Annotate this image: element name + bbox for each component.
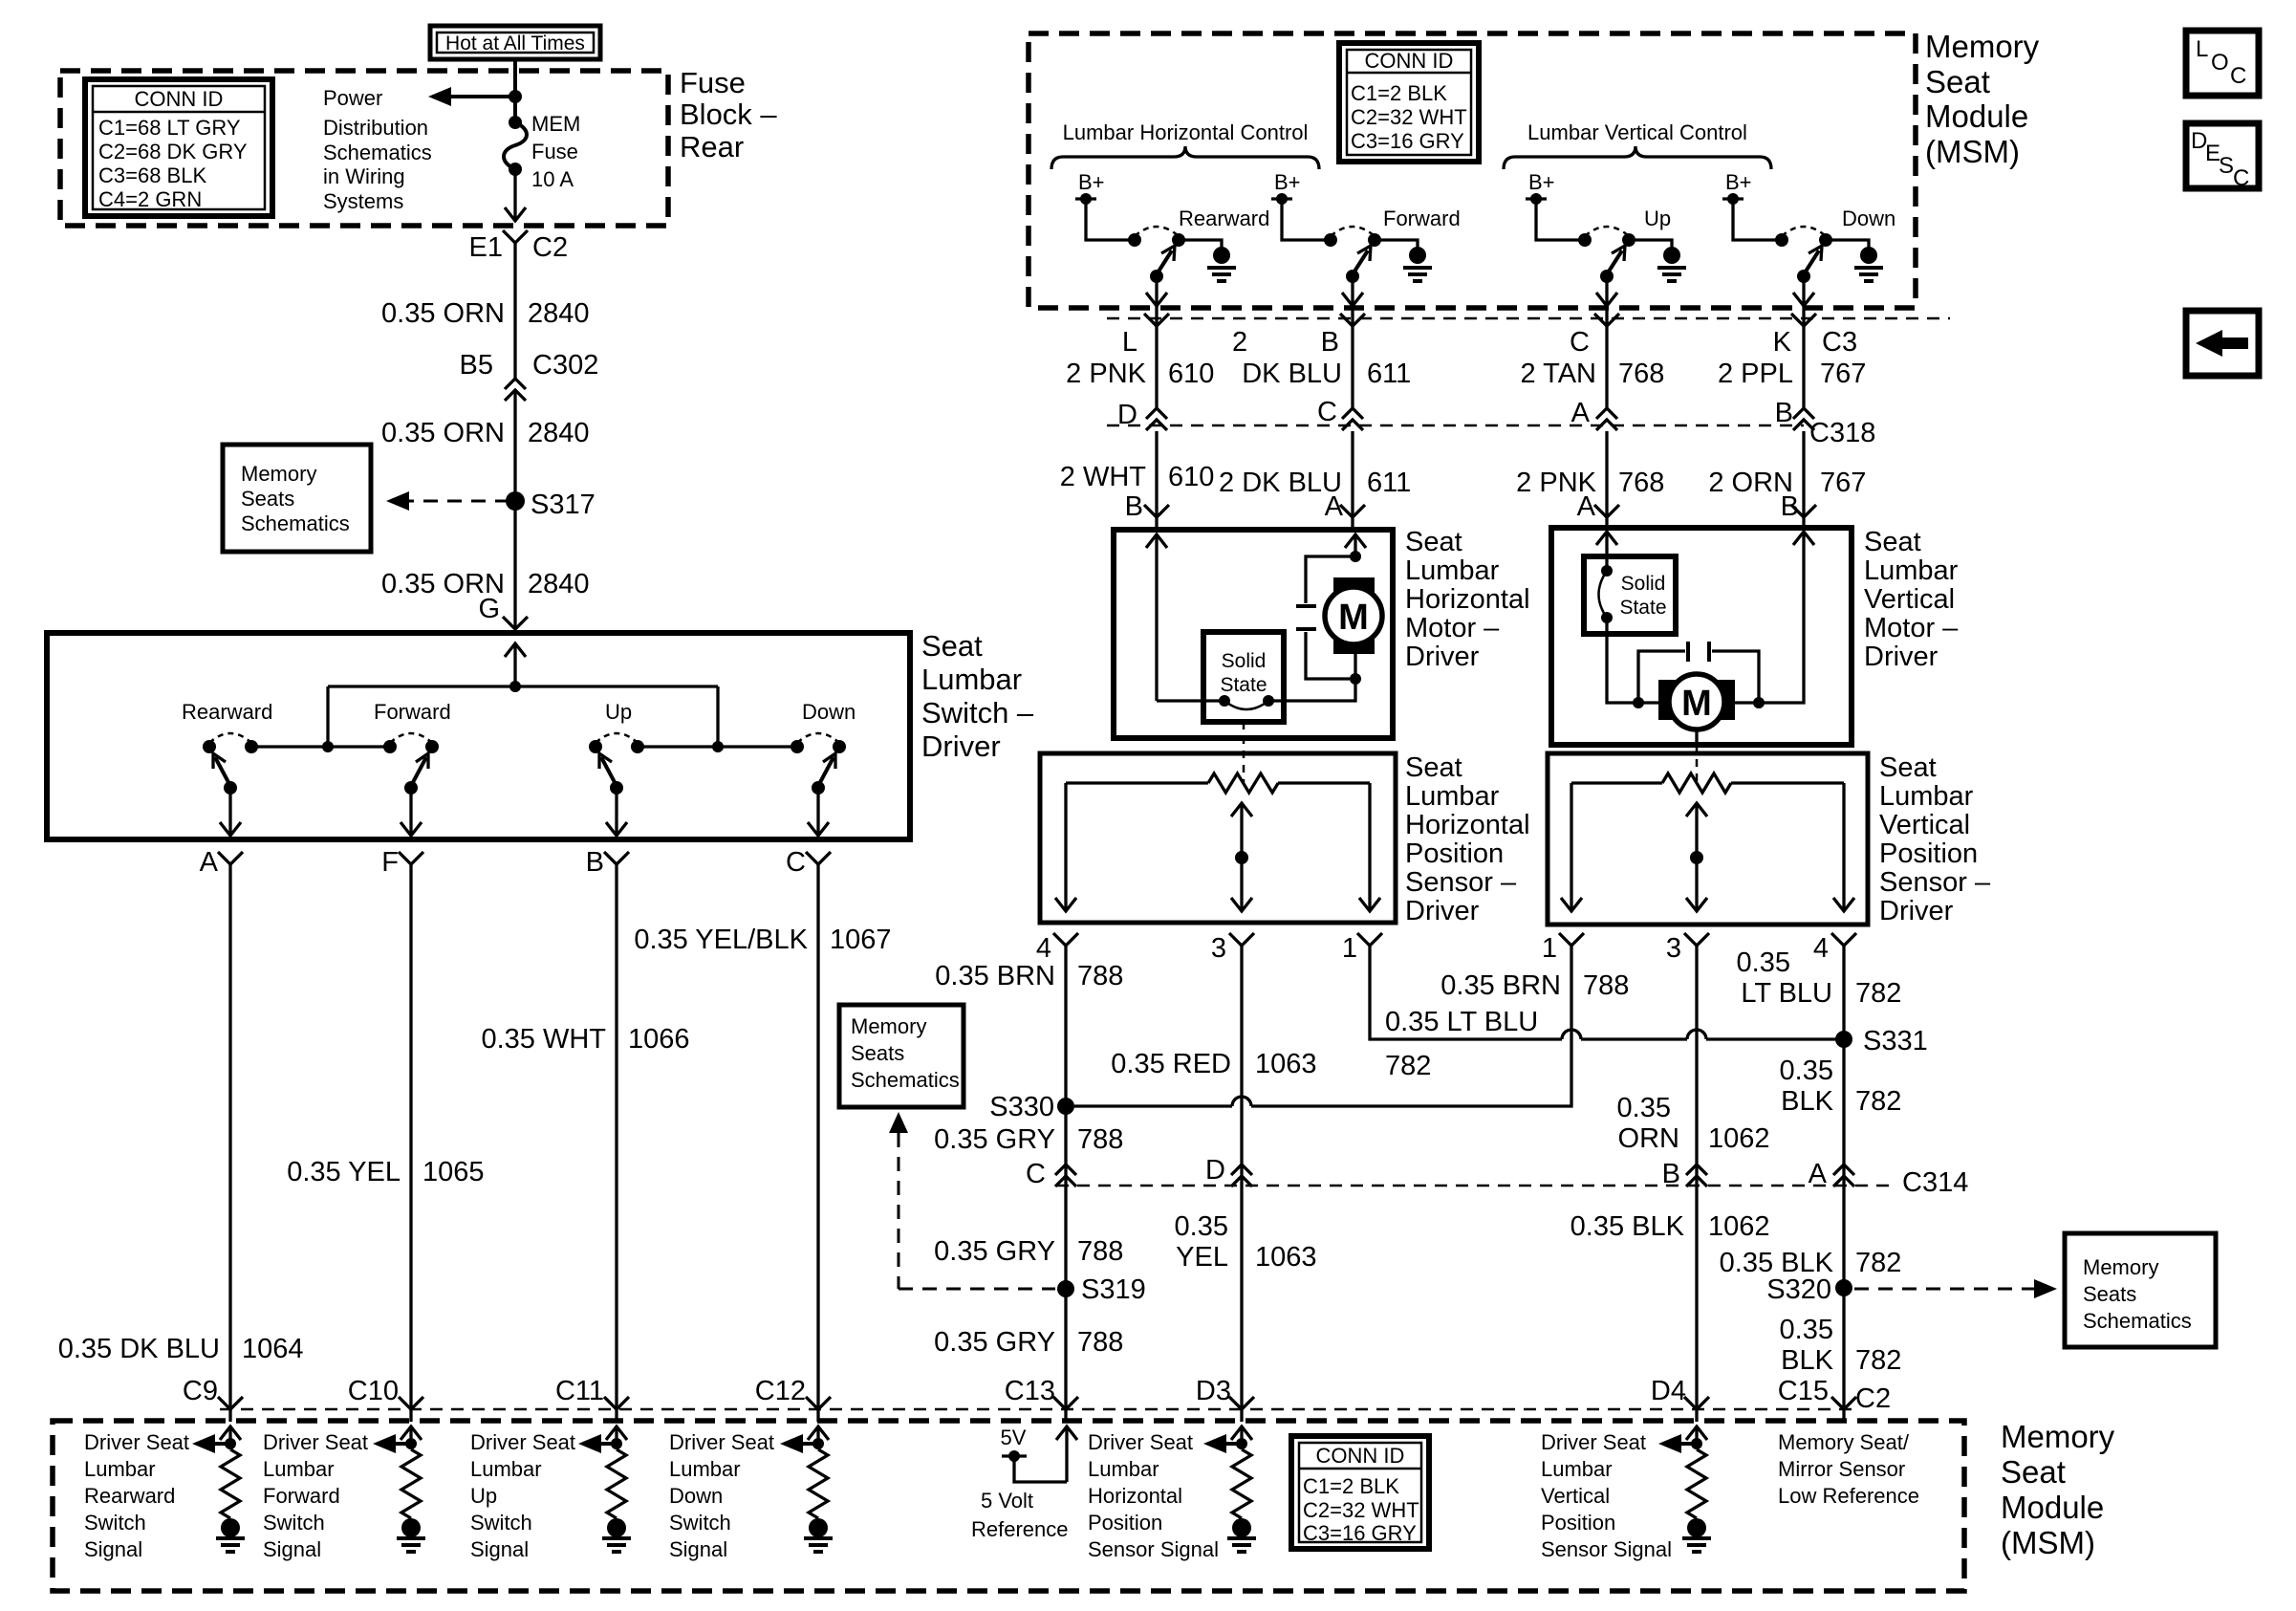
Down switch pivot: [812, 781, 825, 795]
svg-text:788: 788: [1077, 1124, 1123, 1155]
bottom connector line (thin dashed): [220, 1408, 1856, 1411]
svg-text:O: O: [2211, 50, 2229, 76]
wiper leg: [1231, 803, 1252, 816]
connector line C3 (thin dashed): [1107, 317, 1950, 320]
Up switch output wire: [615, 788, 617, 834]
ground (Forward switch): [1375, 240, 1418, 250]
svg-text:Driver Seat: Driver Seat: [1088, 1430, 1193, 1454]
svg-text:788: 788: [1077, 961, 1123, 991]
svg-text:Lumbar: Lumbar: [1879, 781, 1974, 812]
svg-text:Lumbar: Lumbar: [669, 1457, 741, 1481]
svg-text:State: State: [1619, 597, 1666, 619]
wire solid state to motor: [1268, 681, 1355, 701]
Up switch pivot: [610, 781, 623, 795]
svg-text:0.35 GRY: 0.35 GRY: [934, 1327, 1055, 1358]
output wire (Up control): [1605, 276, 1608, 326]
svg-text:E1: E1: [469, 232, 503, 263]
svg-text:CONN ID: CONN ID: [1365, 49, 1454, 73]
svg-text:Signal: Signal: [263, 1537, 321, 1561]
fuse MEM 10A: [509, 116, 522, 129]
svg-text:Memory Seat/: Memory Seat/: [1778, 1430, 1910, 1454]
svg-text:Seats: Seats: [2083, 1282, 2136, 1306]
wire B (WHT 1066): [615, 864, 617, 1408]
wire C302 to switch box: [513, 390, 516, 629]
svg-text:C: C: [786, 847, 806, 878]
svg-text:0.35 DK BLU: 0.35 DK BLU: [58, 1334, 220, 1364]
svg-text:Down: Down: [802, 700, 856, 724]
Rearward switch pivot: [224, 781, 237, 795]
svg-text:1064: 1064: [242, 1334, 304, 1364]
svg-text:Seat: Seat: [1405, 527, 1462, 557]
splice S330: [1057, 1098, 1074, 1115]
pin B wire inside: [1759, 533, 1804, 703]
svg-text:C302: C302: [532, 350, 598, 381]
svg-text:CONN ID: CONN ID: [135, 87, 224, 111]
ground (Rearward switch): [1179, 240, 1222, 250]
svg-text:D3: D3: [1196, 1376, 1231, 1406]
ground: [1687, 1518, 1706, 1537]
svg-text:782: 782: [1855, 1086, 1901, 1117]
5 volt reference (C13): [1065, 1427, 1068, 1482]
splice S320: [1835, 1279, 1852, 1296]
svg-text:768: 768: [1618, 359, 1664, 389]
svg-text:A: A: [1809, 1159, 1828, 1189]
splice S331: [1835, 1031, 1852, 1048]
svg-text:Driver Seat: Driver Seat: [1541, 1430, 1646, 1454]
svg-text:F: F: [381, 847, 399, 878]
svg-text:Systems: Systems: [323, 189, 403, 213]
terminal 4 leg: [1064, 783, 1067, 909]
svg-text:Seat: Seat: [921, 629, 983, 663]
svg-text:782: 782: [1855, 978, 1901, 1009]
svg-text:State: State: [1220, 674, 1267, 696]
svg-text:ORN: ORN: [1618, 1123, 1679, 1154]
svg-text:C2=32 WHT: C2=32 WHT: [1303, 1498, 1419, 1522]
Down input (bottom MSM): [816, 1427, 819, 1449]
svg-text:2 TAN: 2 TAN: [1520, 359, 1596, 389]
svg-text:Lumbar: Lumbar: [470, 1457, 542, 1481]
wiper leg: [1686, 803, 1707, 816]
svg-text:(MSM): (MSM): [1925, 134, 2020, 169]
svg-text:Signal: Signal: [669, 1537, 727, 1561]
svg-text:0.35: 0.35: [1780, 1315, 1833, 1345]
svg-text:Lumbar Vertical Control: Lumbar Vertical Control: [1527, 120, 1747, 144]
svg-text:B: B: [1321, 327, 1339, 358]
svg-text:Vertical: Vertical: [1541, 1484, 1610, 1508]
svg-text:Signal: Signal: [470, 1537, 529, 1561]
svg-text:Sensor –: Sensor –: [1405, 867, 1517, 898]
svg-text:Fuse: Fuse: [531, 140, 578, 163]
svg-text:610: 610: [1168, 359, 1214, 389]
svg-text:0.35 YEL/BLK: 0.35 YEL/BLK: [634, 925, 808, 955]
svg-text:0.35 BLK: 0.35 BLK: [1570, 1211, 1685, 1242]
svg-text:0.35 BRN: 0.35 BRN: [935, 961, 1055, 991]
Rearward input (bottom MSM): [228, 1427, 231, 1449]
svg-text:1: 1: [1342, 933, 1357, 964]
svg-text:C: C: [1570, 327, 1590, 358]
svg-text:Seat: Seat: [1925, 64, 1990, 99]
potentiometer (vertical sensor): [1571, 781, 1662, 784]
svg-text:1066: 1066: [628, 1024, 690, 1055]
svg-text:Schematics: Schematics: [2083, 1309, 2192, 1333]
svg-text:Switch: Switch: [84, 1511, 146, 1535]
svg-text:Switch: Switch: [669, 1511, 731, 1535]
svg-text:Position: Position: [1879, 838, 1978, 869]
svg-text:768: 768: [1618, 468, 1664, 498]
svg-text:788: 788: [1077, 1327, 1123, 1358]
Forward input (bottom MSM): [409, 1427, 412, 1449]
svg-text:M: M: [1338, 598, 1369, 638]
svg-text:782: 782: [1855, 1345, 1901, 1376]
svg-text:Rearward: Rearward: [1179, 207, 1269, 230]
svg-text:C2=68 DK GRY: C2=68 DK GRY: [98, 140, 248, 163]
Memory Seats Schematics box (left): [223, 445, 371, 552]
svg-text:C2: C2: [1855, 1383, 1891, 1414]
svg-text:782: 782: [1385, 1051, 1431, 1081]
svg-text:Down: Down: [669, 1484, 723, 1508]
back arrow icon box: [2186, 311, 2259, 376]
svg-text:767: 767: [1820, 359, 1866, 389]
CONN ID box (MSM top): [1339, 43, 1479, 162]
wire A (DK BLU 1064): [228, 864, 231, 1408]
wire sensorH pin1: down and right to S331 (LT BLU 782): [1370, 946, 1562, 1039]
splice S319: [1057, 1280, 1074, 1297]
wires row2: [1155, 431, 1158, 530]
svg-text:Memory: Memory: [851, 1014, 926, 1038]
svg-text:A: A: [1577, 491, 1596, 522]
svg-text:1067: 1067: [830, 925, 892, 955]
svg-text:788: 788: [1077, 1236, 1123, 1267]
svg-text:Memory: Memory: [2001, 1419, 2115, 1454]
ground: [221, 1518, 240, 1537]
svg-text:1062: 1062: [1708, 1123, 1770, 1154]
svg-text:Up: Up: [1644, 207, 1671, 230]
svg-text:0.35: 0.35: [1175, 1211, 1228, 1242]
terminal 1 leg: [1368, 783, 1371, 909]
svg-text:Hot at All Times: Hot at All Times: [445, 33, 585, 54]
svg-text:BLK: BLK: [1781, 1086, 1833, 1117]
svg-text:Lumbar: Lumbar: [1405, 555, 1500, 586]
CONN ID box (fuse block): [85, 79, 272, 216]
svg-text:B5: B5: [460, 350, 493, 381]
Up switch contacts: [589, 740, 602, 753]
wire sensorV pin4 down through S331,S320 to C15: [1842, 946, 1845, 1408]
svg-text:YEL: YEL: [1176, 1242, 1228, 1273]
svg-text:C3=16 GRY: C3=16 GRY: [1351, 129, 1464, 153]
svg-text:Lumbar Horizontal Control: Lumbar Horizontal Control: [1063, 120, 1309, 144]
svg-text:Reference: Reference: [971, 1517, 1069, 1541]
svg-text:C11: C11: [555, 1376, 604, 1406]
svg-text:Driver Seat: Driver Seat: [84, 1430, 189, 1454]
svg-text:Memory: Memory: [241, 462, 316, 486]
svg-text:Lumbar: Lumbar: [263, 1457, 335, 1481]
svg-text:Vertical: Vertical: [1879, 810, 1970, 840]
Seat Lumbar Horizontal Position Sensor - Driver box: [1040, 753, 1396, 923]
svg-text:A: A: [1571, 398, 1591, 428]
svg-text:5 Volt: 5 Volt: [981, 1489, 1033, 1513]
svg-text:C4=2 GRN: C4=2 GRN: [98, 187, 202, 211]
svg-text:Vertical: Vertical: [1864, 584, 1955, 615]
wire E1 to C302: [513, 243, 516, 379]
svg-text:Seat: Seat: [1864, 527, 1921, 557]
svg-text:0.35 YEL: 0.35 YEL: [287, 1157, 401, 1187]
ground: [401, 1518, 421, 1537]
svg-text:Forward: Forward: [1383, 207, 1461, 230]
wire sensorV pin1 down to S330 line: [1251, 946, 1571, 1106]
svg-text:B: B: [1775, 398, 1793, 428]
svg-text:2 PNK: 2 PNK: [1066, 359, 1146, 389]
pull resistor: [221, 1449, 240, 1518]
svg-text:C15: C15: [1778, 1376, 1829, 1406]
output wire (Rearward control): [1155, 276, 1158, 326]
Memory Seats Schematics box (right): [2065, 1233, 2216, 1347]
svg-text:2840: 2840: [528, 569, 590, 599]
svg-text:B+: B+: [1274, 170, 1301, 194]
ground: [607, 1518, 626, 1537]
svg-text:2 DK BLU: 2 DK BLU: [1219, 468, 1342, 498]
svg-text:Schematics: Schematics: [241, 512, 350, 535]
svg-text:S319: S319: [1081, 1274, 1146, 1305]
dashed arrow S320 to Memory Seats Schematics: [1854, 1288, 2034, 1291]
svg-text:0.35 RED: 0.35 RED: [1111, 1049, 1231, 1079]
ground: [1232, 1518, 1251, 1537]
Forward switch pivot: [404, 781, 418, 795]
svg-text:C2=32 WHT: C2=32 WHT: [1351, 105, 1467, 129]
Solid State box (vertical motor): [1584, 556, 1676, 634]
ground (Up switch): [1629, 240, 1672, 250]
connector line C314 (thin dashed): [1056, 1185, 1897, 1187]
feed bus from G: [513, 644, 516, 686]
connector line C318 (thin dashed): [1107, 425, 1804, 427]
svg-text:B: B: [1125, 491, 1143, 522]
svg-text:C318: C318: [1809, 418, 1875, 448]
svg-text:D: D: [1205, 1155, 1225, 1186]
Rearward switch output wire: [228, 788, 231, 834]
svg-text:S331: S331: [1863, 1026, 1928, 1056]
svg-text:611: 611: [1367, 359, 1411, 389]
svg-text:Block –: Block –: [680, 98, 777, 131]
svg-text:2840: 2840: [528, 298, 590, 329]
svg-text:Driver Seat: Driver Seat: [263, 1430, 368, 1454]
svg-text:4: 4: [1036, 933, 1051, 964]
svg-text:Sensor Signal: Sensor Signal: [1088, 1537, 1219, 1561]
svg-text:3: 3: [1211, 933, 1226, 964]
wire sensorH pin4 down to C13: [1064, 946, 1067, 1408]
terminal 1 leg: [1570, 783, 1572, 909]
svg-text:Rearward: Rearward: [84, 1484, 175, 1508]
connector E1/C2: [503, 230, 528, 243]
svg-text:0.35 ORN: 0.35 ORN: [381, 298, 505, 329]
motor M (vertical): [1658, 680, 1735, 720]
svg-text:Fuse: Fuse: [680, 66, 746, 99]
svg-text:1062: 1062: [1708, 1211, 1770, 1242]
svg-text:0.35: 0.35: [1780, 1056, 1833, 1086]
svg-text:C10: C10: [348, 1376, 399, 1406]
svg-text:1065: 1065: [422, 1157, 485, 1187]
potentiometer (horizontal sensor): [1066, 781, 1208, 784]
hop over wire 3 on S330 line: [1232, 1097, 1251, 1106]
wire to fuse block edge: [513, 169, 516, 220]
Rearward switch contacts: [203, 740, 216, 753]
Memory Seat Module (MSM) bottom dashed box: [53, 1421, 1964, 1591]
splice S317 dashed arrow: [400, 500, 507, 503]
svg-text:C: C: [2233, 165, 2249, 191]
svg-text:BLK: BLK: [1781, 1345, 1833, 1376]
svg-text:0.35 GRY: 0.35 GRY: [934, 1236, 1055, 1267]
svg-text:LT BLU: LT BLU: [1741, 978, 1832, 1009]
svg-text:Switch: Switch: [470, 1511, 532, 1535]
svg-text:1: 1: [1542, 933, 1557, 964]
svg-text:C2: C2: [532, 232, 568, 263]
link motor to sensor (vertical): [1695, 729, 1698, 745]
Up input (bottom MSM): [615, 1427, 617, 1449]
svg-text:C3=68 BLK: C3=68 BLK: [98, 163, 206, 187]
Hot at All Times box: [430, 26, 600, 59]
pull resistor: [401, 1449, 421, 1518]
pull resistor: [1232, 1449, 1251, 1518]
svg-text:Mirror Sensor: Mirror Sensor: [1778, 1457, 1905, 1481]
Memory Seat Module (MSM) dashed box top: [1029, 33, 1916, 308]
svg-text:M: M: [1681, 684, 1712, 724]
svg-text:S317: S317: [531, 490, 596, 520]
svg-text:611: 611: [1367, 468, 1411, 498]
DESC icon box: [2186, 123, 2259, 188]
svg-text:C: C: [1026, 1159, 1046, 1189]
svg-text:DK BLU: DK BLU: [1242, 359, 1342, 389]
wire C (YEL/BLK 1067): [816, 864, 819, 1408]
motor M (horizontal): [1333, 577, 1375, 654]
Memory Seats Schematics box (mid-left): [839, 1005, 964, 1107]
svg-text:B: B: [1662, 1159, 1680, 1189]
svg-text:Schematics: Schematics: [851, 1068, 960, 1092]
svg-text:Forward: Forward: [374, 700, 451, 724]
output wire (Down control): [1802, 276, 1805, 326]
svg-text:S320: S320: [1766, 1274, 1831, 1305]
svg-text:0.35: 0.35: [1617, 1093, 1671, 1123]
svg-text:Rearward: Rearward: [182, 700, 272, 724]
svg-text:Lumbar: Lumbar: [1864, 555, 1959, 586]
svg-text:782: 782: [1855, 1248, 1901, 1278]
output wire (Forward control): [1351, 276, 1354, 326]
svg-text:Lumbar: Lumbar: [1541, 1457, 1613, 1481]
svg-text:C9: C9: [183, 1376, 218, 1406]
svg-text:0.35 LT BLU: 0.35 LT BLU: [1385, 1007, 1538, 1037]
svg-text:2840: 2840: [528, 418, 590, 448]
Down switch contacts: [791, 740, 804, 753]
wire F (YEL 1065): [409, 864, 412, 1408]
svg-text:C3: C3: [1822, 327, 1857, 358]
power distribution branch arrow: [436, 95, 515, 98]
Horizontal input (bottom MSM): [1240, 1427, 1243, 1449]
svg-text:Module: Module: [1925, 98, 2028, 134]
svg-text:2: 2: [1232, 327, 1247, 358]
pull resistor: [809, 1449, 828, 1518]
svg-text:in Wiring: in Wiring: [323, 164, 405, 188]
Seat Lumbar Vertical Motor - Driver box: [1551, 528, 1852, 745]
svg-text:Driver: Driver: [1864, 642, 1939, 672]
svg-text:Driver: Driver: [1405, 896, 1480, 926]
svg-text:Distribution: Distribution: [323, 116, 428, 140]
svg-text:Solid: Solid: [1621, 573, 1666, 595]
Seat Lumbar Vertical Position Sensor - Driver box: [1548, 753, 1868, 925]
svg-text:Lumbar: Lumbar: [1088, 1457, 1159, 1481]
svg-text:Motor –: Motor –: [1405, 613, 1500, 643]
svg-text:Lumbar: Lumbar: [1405, 781, 1500, 812]
svg-text:S: S: [2219, 153, 2234, 179]
Seat Lumbar Switch - Driver box: [47, 633, 910, 839]
ground: [809, 1518, 828, 1537]
svg-text:Sensor Signal: Sensor Signal: [1541, 1537, 1672, 1561]
svg-text:B+: B+: [1528, 170, 1555, 194]
svg-text:Motor –: Motor –: [1864, 613, 1959, 643]
svg-text:B+: B+: [1078, 170, 1105, 194]
svg-text:788: 788: [1583, 970, 1629, 1001]
svg-text:0.35 WHT: 0.35 WHT: [481, 1024, 606, 1055]
svg-text:Memory: Memory: [2083, 1255, 2158, 1279]
dashed link motor to sensor (horizontal): [1243, 722, 1245, 782]
svg-text:Driver Seat: Driver Seat: [470, 1430, 575, 1454]
svg-text:Forward: Forward: [263, 1484, 340, 1508]
ground (Down switch): [1826, 240, 1869, 250]
svg-text:0.35: 0.35: [1737, 947, 1790, 978]
svg-text:Horizontal: Horizontal: [1088, 1484, 1182, 1508]
svg-text:0.35 BRN: 0.35 BRN: [1440, 970, 1561, 1001]
Forward switch contacts: [383, 740, 397, 753]
svg-text:C: C: [1317, 397, 1337, 427]
svg-text:Driver: Driver: [1405, 642, 1480, 672]
svg-text:Up: Up: [605, 700, 632, 724]
svg-text:Lumbar: Lumbar: [921, 663, 1022, 696]
junction on trunk: [509, 90, 522, 103]
svg-text:CONN ID: CONN ID: [1316, 1444, 1405, 1468]
pin A wire inside: [1354, 535, 1356, 556]
svg-text:Seat: Seat: [1405, 752, 1462, 783]
svg-text:Seat: Seat: [1879, 752, 1937, 783]
wires row1: [1155, 326, 1158, 408]
svg-text:Seat: Seat: [2001, 1454, 2066, 1490]
svg-text:0.35 ORN: 0.35 ORN: [381, 418, 505, 448]
terminal 4 leg: [1842, 783, 1845, 909]
svg-text:A: A: [200, 847, 219, 878]
svg-text:Lumbar: Lumbar: [84, 1457, 156, 1481]
wire from Hot box into fuse block: [513, 59, 517, 122]
svg-text:Position: Position: [1088, 1511, 1162, 1535]
Vertical input (bottom MSM): [1695, 1427, 1698, 1449]
svg-text:B: B: [1781, 491, 1799, 522]
svg-text:Seats: Seats: [241, 487, 294, 511]
svg-text:C12: C12: [755, 1376, 806, 1406]
wire sensorV pin3 down to D4: [1695, 946, 1698, 1408]
svg-text:K: K: [1773, 327, 1792, 358]
Fuse Block - Rear dashed box: [60, 71, 668, 226]
svg-text:Up: Up: [470, 1484, 497, 1508]
svg-text:C314: C314: [1902, 1167, 1968, 1198]
svg-text:B+: B+: [1725, 170, 1752, 194]
svg-text:MEM: MEM: [531, 112, 580, 136]
suppression capacitor: [1306, 556, 1355, 603]
svg-text:C1=68 LT GRY: C1=68 LT GRY: [98, 116, 241, 140]
svg-text:Sensor –: Sensor –: [1879, 867, 1991, 898]
pin B wire inside: [1155, 535, 1158, 701]
pin A wire inside: [1605, 533, 1608, 571]
svg-text:1063: 1063: [1255, 1242, 1317, 1273]
svg-text:Driver: Driver: [921, 729, 1001, 763]
svg-text:10 A: 10 A: [531, 167, 574, 191]
svg-text:Position: Position: [1405, 838, 1504, 869]
svg-text:2 PPL: 2 PPL: [1718, 359, 1793, 389]
Seat Lumbar Horizontal Motor - Driver box: [1114, 530, 1393, 738]
splice S317: [506, 491, 525, 511]
